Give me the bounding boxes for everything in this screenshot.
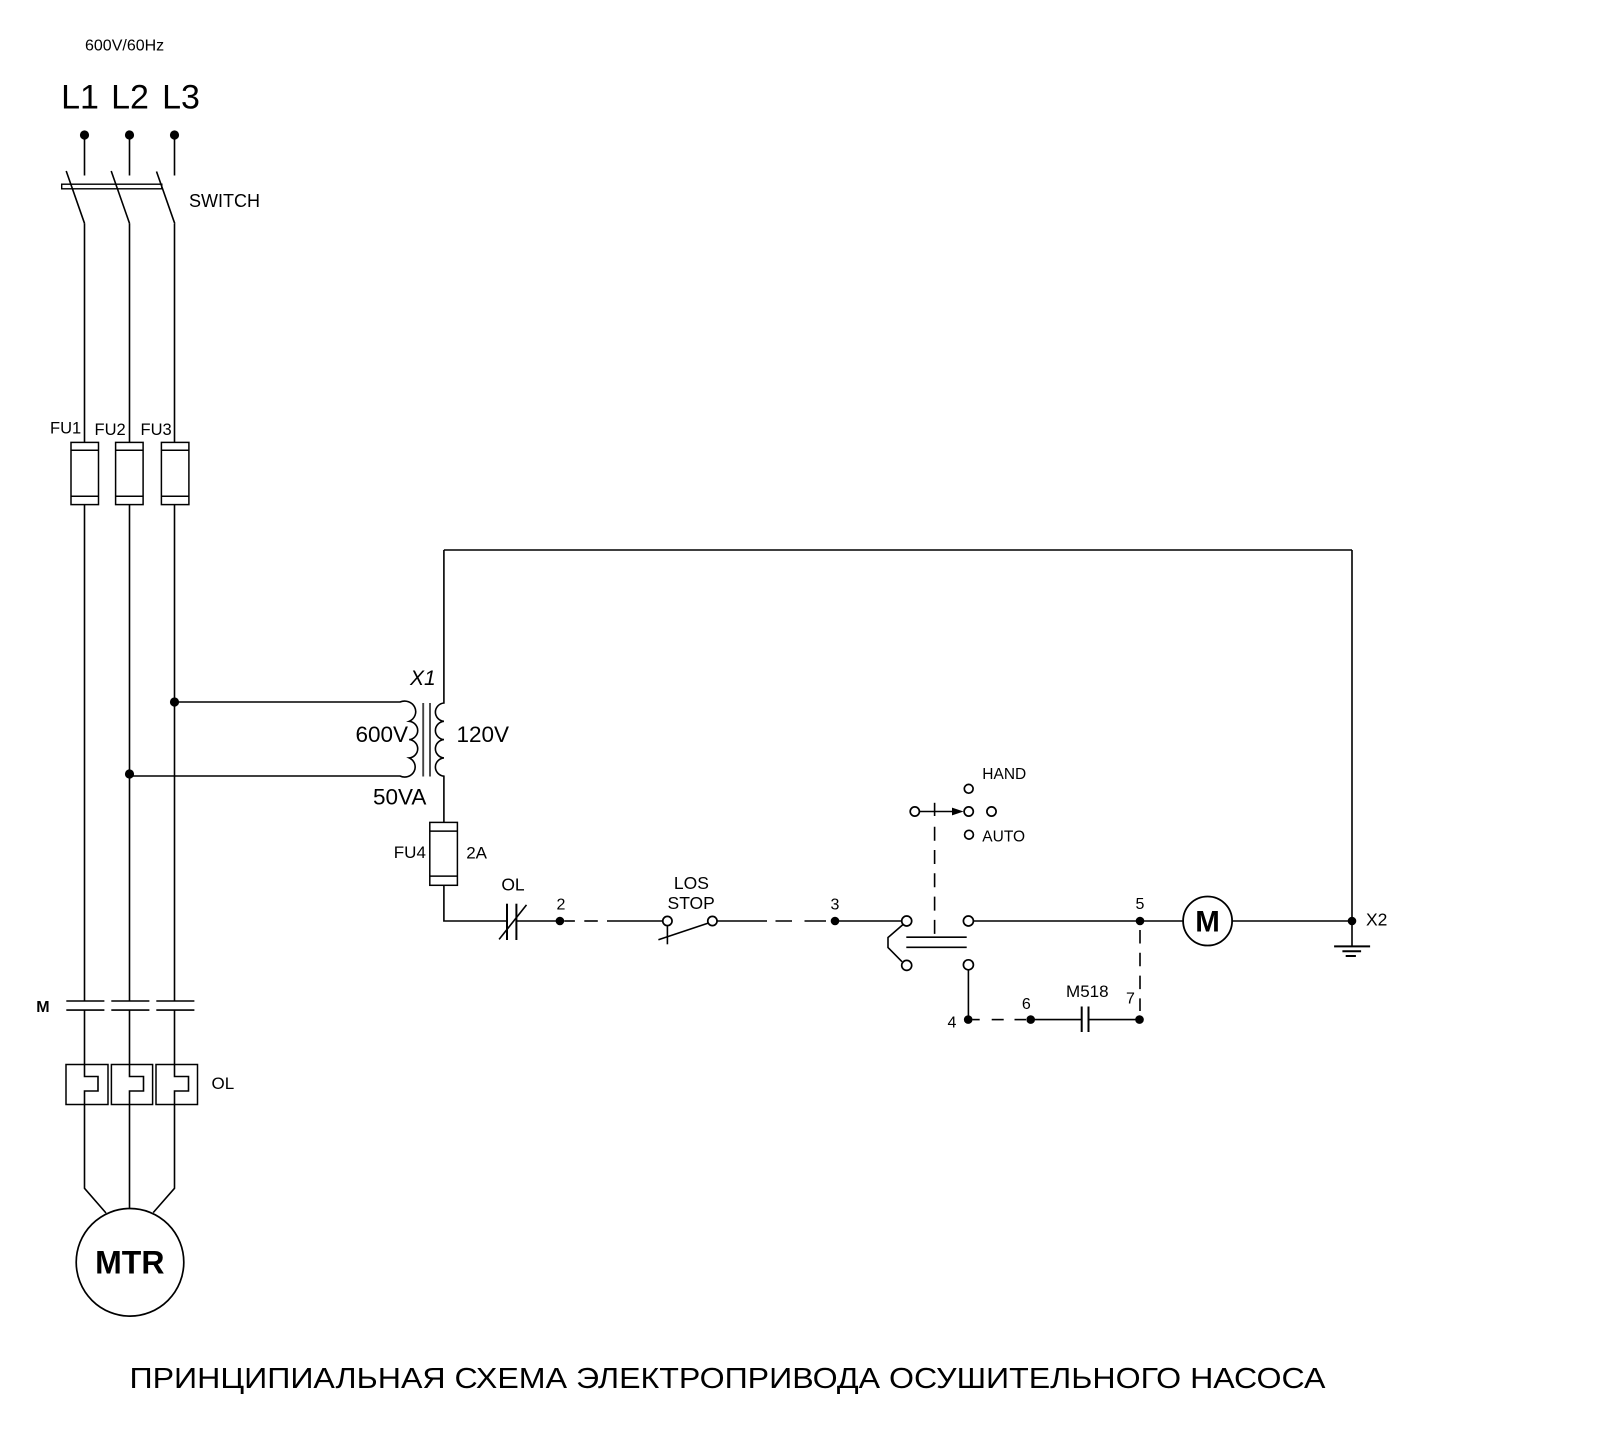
selector switch HAND/AUTO: [910, 784, 996, 839]
svg-text:X1: X1: [409, 667, 436, 690]
wire right rail down to X2: [1351, 550, 1353, 921]
wire stub after node 2: [564, 920, 575, 922]
transformer X1 secondary winding 120V with leads: [435, 550, 444, 822]
wire float switch to node 4: [967, 970, 969, 1020]
node 2 junction dot: [556, 917, 565, 926]
contact OL normally-closed: [499, 904, 526, 940]
dashed link node 5 to node 7: [1139, 930, 1141, 1011]
switch SWITCH gang bar: [62, 184, 162, 189]
node 5 junction dot: [1136, 917, 1145, 926]
svg-text:3: 3: [831, 896, 840, 913]
transformer X1 primary winding 600V: [130, 701, 418, 777]
transformer X1 core: [423, 703, 430, 777]
float switch actuator bars: [906, 937, 966, 947]
wire dash segment: [584, 920, 598, 922]
wire dash segment: [805, 920, 827, 922]
coil M motor starter: [1183, 897, 1232, 946]
svg-text:FU3: FU3: [141, 421, 172, 439]
wire FU4 to OL contact: [444, 885, 507, 921]
svg-text:FU4: FU4: [394, 843, 426, 862]
selector arrow: [920, 808, 964, 816]
junction node on L2 to transformer primary bottom: [125, 769, 134, 778]
fuse FU2: [116, 442, 144, 504]
overload heater OL pole 2 with wire to motor: [111, 1010, 152, 1209]
ground symbol: [1334, 921, 1370, 956]
svg-text:L2: L2: [111, 79, 149, 117]
wire top rail from secondary to right side: [444, 549, 1352, 551]
node 3 junction dot: [831, 917, 840, 926]
wire L3 switch to M contact: [174, 224, 176, 1001]
wire L2 switch to M contact: [129, 223, 131, 1001]
svg-text:X2: X2: [1366, 909, 1387, 929]
contact M pole 3: [156, 1001, 194, 1010]
wire node 6 to capacitor M518: [1031, 1019, 1082, 1021]
wire dash segment: [776, 920, 793, 922]
svg-text:LOS: LOS: [674, 873, 709, 893]
node 6 junction dot: [1026, 1015, 1035, 1024]
svg-text:600V: 600V: [356, 722, 409, 747]
wire L2 terminal to switch: [129, 135, 131, 176]
wire to LOS STOP switch: [607, 920, 663, 922]
overload heater OL pole 3 with wire to motor: [153, 1010, 197, 1213]
dashed link selector to float switch: [934, 827, 936, 936]
svg-text:2A: 2A: [466, 844, 487, 863]
svg-text:4: 4: [948, 1014, 957, 1031]
switch blade pole 3: [157, 172, 175, 224]
motor MTR: [76, 1209, 184, 1317]
fuse FU1: [71, 442, 99, 504]
svg-text:FU1: FU1: [50, 420, 81, 438]
contact M pole 2: [111, 1001, 149, 1010]
wire L1 switch to M contact: [84, 223, 86, 1001]
wire stub after node 4: [973, 1019, 980, 1021]
svg-text:L1: L1: [61, 79, 99, 117]
terminal dot L1: [80, 130, 89, 139]
wire float switch to node 5: [973, 920, 1140, 922]
terminal dot L2: [125, 130, 134, 139]
svg-text:MTR: MTR: [95, 1245, 164, 1281]
wire L3 terminal to switch: [174, 135, 176, 176]
switch blade pole 2: [111, 171, 129, 223]
svg-text:SWITCH: SWITCH: [189, 191, 260, 211]
wire LOS to dashes: [717, 920, 767, 922]
svg-text:L3: L3: [162, 79, 200, 117]
contact M pole 1: [66, 1001, 104, 1010]
wire L1 terminal to switch: [84, 135, 86, 176]
overload heater OL pole 1 with wire to motor: [66, 1010, 108, 1213]
svg-text:6: 6: [1022, 996, 1031, 1013]
svg-text:OL: OL: [212, 1074, 235, 1093]
svg-text:STOP: STOP: [668, 893, 715, 913]
wire capacitor to node 7: [1089, 1019, 1140, 1021]
svg-text:HAND: HAND: [982, 766, 1026, 783]
wire node 5 to coil M: [1140, 920, 1183, 922]
selector tick: [934, 803, 936, 816]
svg-text:7: 7: [1126, 991, 1135, 1008]
svg-text:M: M: [36, 999, 49, 1016]
svg-text:120V: 120V: [457, 722, 510, 747]
wire dash segment: [992, 1019, 1004, 1021]
svg-text:AUTO: AUTO: [982, 829, 1025, 846]
wire node 3 to float switch: [835, 920, 902, 922]
svg-text:OL: OL: [501, 875, 525, 895]
switch LOS STOP: [658, 916, 717, 944]
wire dash segment: [1015, 1019, 1027, 1021]
svg-text:600V/60Hz: 600V/60Hz: [85, 38, 164, 55]
junction node on L3 to transformer primary top: [170, 697, 179, 706]
svg-text:ПРИНЦИПИАЛЬНАЯ СХЕМА ЭЛЕКТРОПР: ПРИНЦИПИАЛЬНАЯ СХЕМА ЭЛЕКТРОПРИВОДА ОСУШ…: [130, 1363, 1327, 1395]
capacitor M518: [1082, 1007, 1089, 1033]
wire OL to node 2: [516, 920, 556, 922]
node 4 junction dot: [964, 1015, 973, 1024]
fuse FU3: [161, 442, 189, 504]
fuse FU4 2A: [430, 822, 458, 885]
svg-text:M: M: [1195, 906, 1220, 939]
svg-text:2: 2: [557, 896, 566, 913]
terminal dot L3: [170, 130, 179, 139]
svg-text:M518: M518: [1066, 982, 1109, 1001]
node X2 junction dot: [1348, 917, 1357, 926]
float switch contact terminals: [888, 916, 973, 970]
svg-text:FU2: FU2: [95, 421, 126, 439]
switch blade pole 1: [66, 171, 84, 223]
wire coil M to X2: [1232, 920, 1352, 922]
svg-text:50VA: 50VA: [373, 785, 426, 810]
svg-text:5: 5: [1136, 896, 1145, 913]
node 7 junction dot: [1135, 1015, 1144, 1024]
